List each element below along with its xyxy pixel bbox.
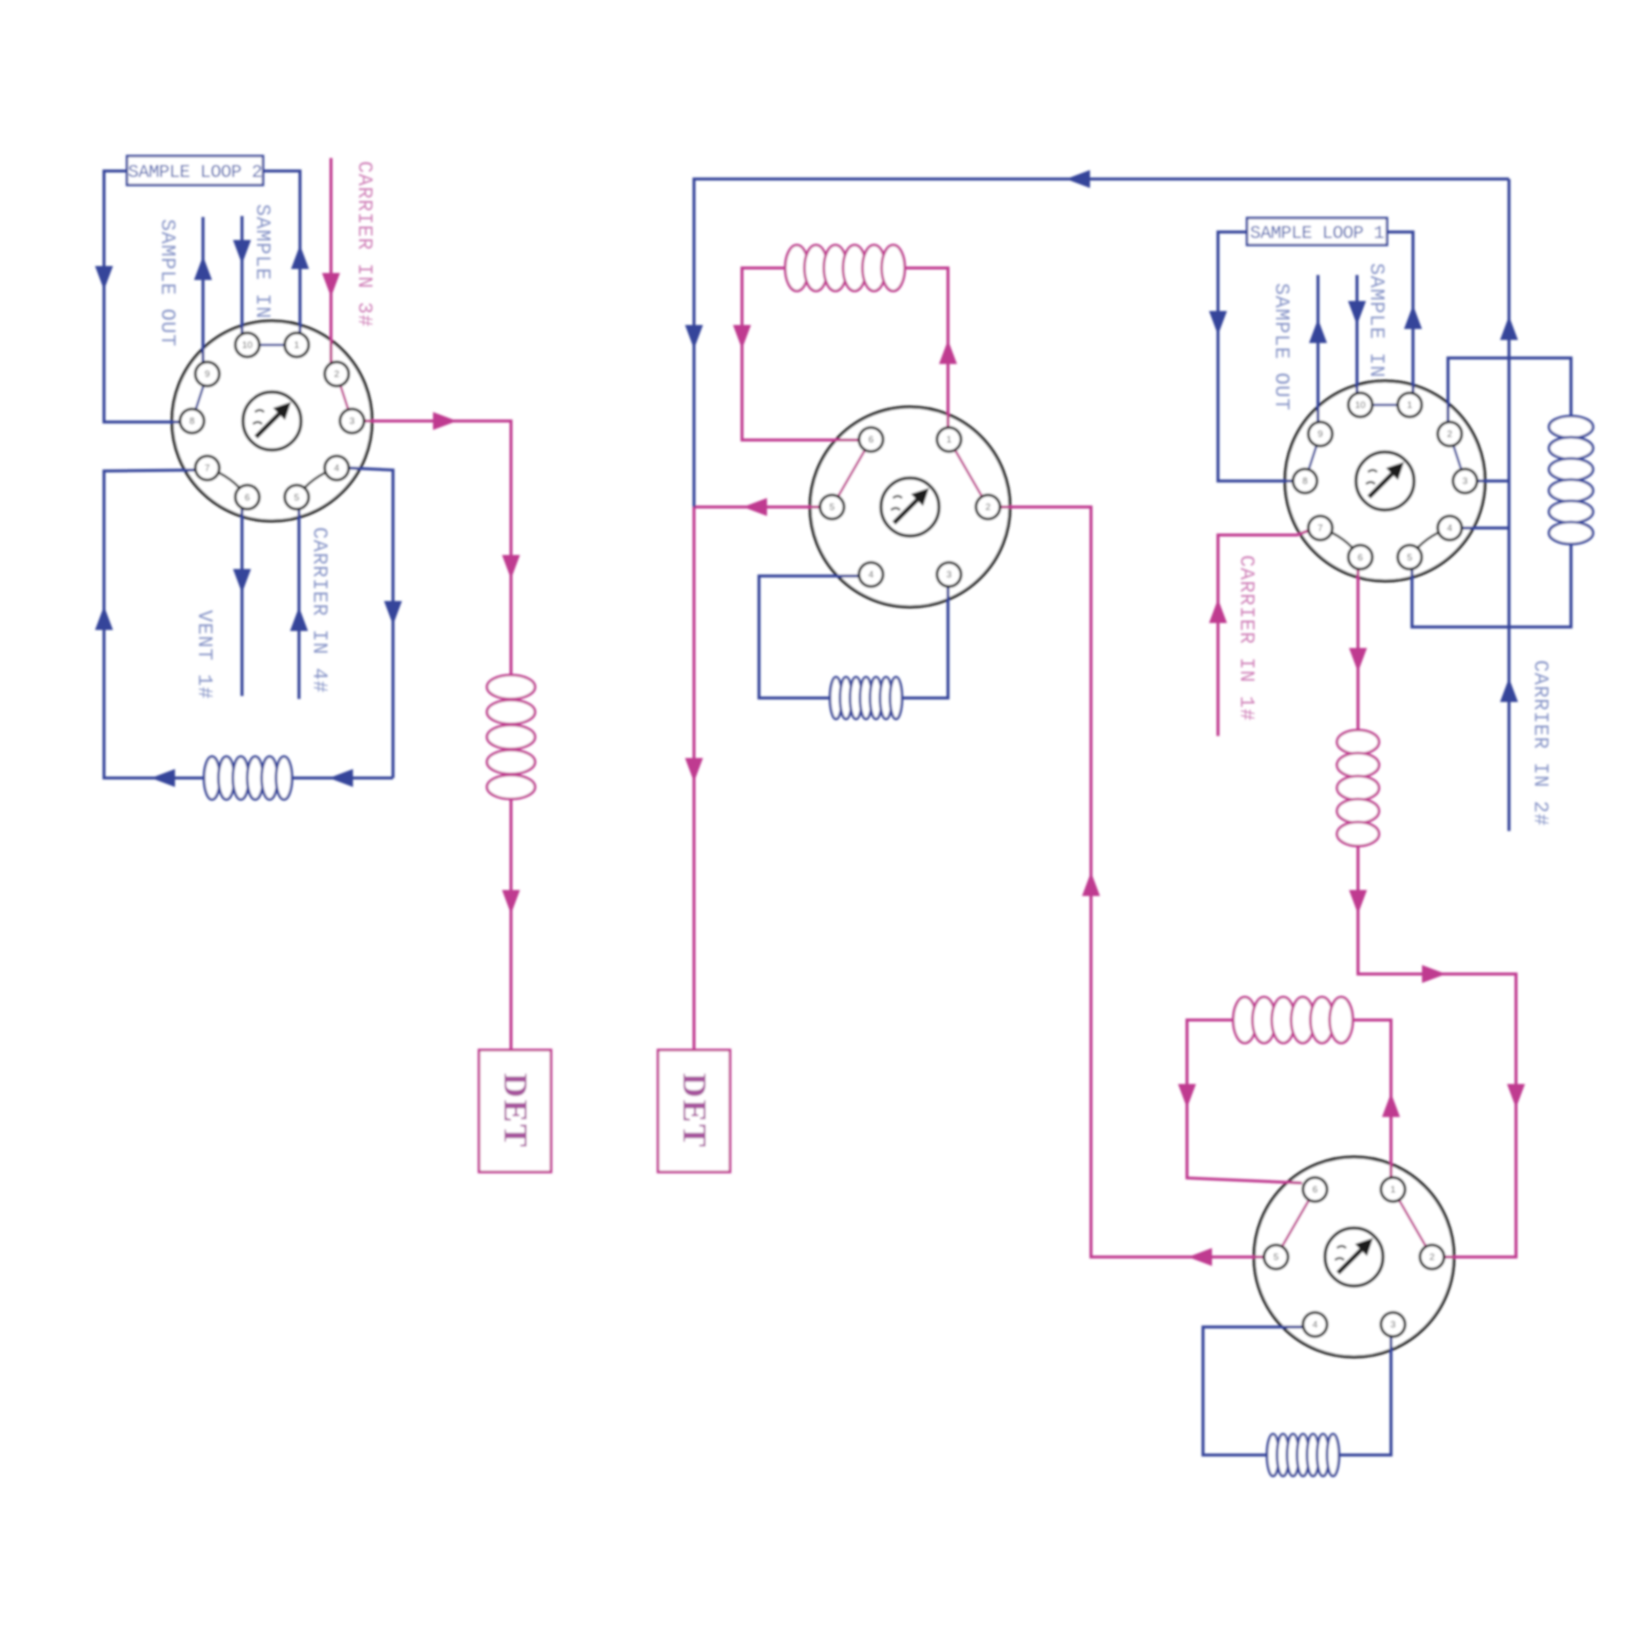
valve V2 (10-port) body: [172, 321, 372, 521]
svg-text:5: 5: [1273, 1252, 1278, 1263]
coil column C1 (vertical pink): [487, 675, 535, 799]
V3 port 3: [1453, 469, 1477, 493]
V2 port 8: [180, 409, 204, 433]
SAMPLE LOOP 2 box: [127, 156, 263, 185]
svg-text:SAMPLE OUT: SAMPLE OUT: [155, 219, 178, 347]
wire V4 port5 to V1 port2: [1000, 507, 1264, 1257]
V3 port 2: [1438, 422, 1462, 446]
wire CARRIER IN 4# to V2 port5: [298, 509, 301, 699]
svg-text:2: 2: [334, 369, 339, 380]
wire V3 port3 out: [1477, 480, 1509, 483]
arrow loop1 up: [1404, 305, 1422, 329]
V3 rotor channel 10-1: [1360, 404, 1409, 406]
svg-text:SAMPLE IN: SAMPLE IN: [250, 204, 273, 319]
V2 port 3: [340, 409, 364, 433]
arrow bottom loop left 1: [329, 769, 353, 787]
arrow bottom loop up: [95, 606, 113, 630]
svg-text:7: 7: [1318, 523, 1323, 534]
valve V4 (6-port) body: [1254, 1157, 1454, 1357]
arrow v3 out right: [1422, 965, 1446, 983]
svg-text:CARRIER IN 3#: CARRIER IN 3#: [352, 161, 375, 327]
V3 rotor channel 2-3: [1450, 434, 1465, 481]
arrow bottom loop down: [384, 601, 402, 625]
wire V4 coil loop ports1-6: [1187, 1020, 1391, 1183]
svg-text:6: 6: [245, 492, 250, 503]
V2 port 9: [195, 362, 219, 386]
arrow carrier2 up: [1500, 678, 1518, 702]
DET box 2: [658, 1050, 730, 1172]
V4 port 2: [1420, 1245, 1444, 1269]
coil column C5 (pink): [1233, 997, 1353, 1043]
wire SAMPLE IN to V3 port10: [1356, 275, 1359, 394]
V1 port 1: [937, 428, 961, 452]
svg-text:SAMPLE OUT: SAMPLE OUT: [1269, 283, 1292, 411]
coil reference L2 (blue): [830, 677, 902, 719]
V1 port 3: [937, 563, 961, 587]
svg-text:6: 6: [1358, 552, 1363, 563]
wire loop2 left side to port8: [104, 171, 181, 422]
V2 port 5: [285, 485, 309, 509]
svg-text:2: 2: [1447, 429, 1452, 440]
V3 rotor channel 8-9: [1305, 434, 1320, 481]
svg-text:DET: DET: [676, 1073, 713, 1149]
svg-text:8: 8: [189, 416, 194, 427]
V4 port 6: [1303, 1178, 1327, 1202]
V3 port 10: [1348, 393, 1372, 417]
wire loop1 right side to V3 port1: [1387, 232, 1413, 394]
coil column C3 (blue vertical): [1549, 416, 1593, 544]
wire coil to V4 port2: [1358, 845, 1516, 1257]
svg-text:SAMPLE LOOP 2: SAMPLE LOOP 2: [128, 163, 262, 183]
arrow V4-V1 up: [1082, 872, 1100, 896]
V2 rotor channel 10-1: [247, 344, 296, 346]
V3 port 8: [1293, 469, 1317, 493]
V2 port 10: [235, 333, 259, 357]
svg-text:9: 9: [205, 369, 210, 380]
wire loop2 right side: [263, 171, 300, 334]
wire SAMPLE IN to V2 port10: [241, 216, 244, 334]
V1 port 5: [820, 495, 844, 519]
svg-text:SAMPLE IN: SAMPLE IN: [1364, 263, 1387, 378]
V2 rotor channel 8-9: [192, 374, 207, 421]
svg-text:9: 9: [1318, 429, 1323, 440]
arrow to DET1 down 1: [502, 555, 520, 579]
arrow v3 out down 2: [1349, 890, 1367, 914]
arrow carrier4 up: [290, 607, 308, 631]
V2 rotor channel 2-3: [337, 374, 352, 421]
arrow DET2 down: [685, 758, 703, 782]
svg-text:10: 10: [242, 340, 253, 351]
wire V2 port4 to bottom loop right: [349, 468, 393, 778]
arrow loop2 down: [95, 266, 113, 290]
arrow V1 loop up: [939, 340, 957, 364]
V4 rotor channel 6-5: [1276, 1190, 1315, 1258]
V3 port 4: [1438, 516, 1462, 540]
V4 port 5: [1264, 1245, 1288, 1269]
V1 rotor channel 1-2: [949, 440, 988, 508]
coil column C4 (pink vertical): [1337, 730, 1379, 846]
svg-text:4: 4: [1447, 523, 1452, 534]
arrow carrier1 up: [1209, 599, 1227, 623]
arrow V4 loop down: [1178, 1084, 1196, 1108]
coil reference L3 (blue): [1267, 1434, 1339, 1476]
svg-text:5: 5: [1407, 552, 1412, 563]
wire CARRIER IN 3# to V2 port2: [330, 158, 333, 364]
V4 rotor channel 1-2: [1393, 1190, 1432, 1258]
arrow vent down: [233, 569, 251, 593]
svg-text:DET: DET: [497, 1073, 534, 1149]
V2 port 2: [325, 362, 349, 386]
svg-text:4: 4: [868, 570, 873, 581]
wire V3 port6 down: [1357, 569, 1360, 731]
SAMPLE LOOP 1 box: [1247, 218, 1387, 245]
V4 port 1: [1381, 1178, 1405, 1202]
wire SAMPLE OUT from V3 port9: [1317, 275, 1320, 423]
V3 port 7: [1308, 516, 1332, 540]
arrow V4 loop up: [1382, 1093, 1400, 1117]
arrow bottom loop left 2: [151, 769, 175, 787]
svg-text:10: 10: [1355, 400, 1366, 411]
wire V1 coil loop ports1-6: [742, 268, 948, 440]
V3 rotor handle: [1356, 452, 1414, 510]
V2 port 6: [235, 485, 259, 509]
svg-text:CARRIER IN 2#: CARRIER IN 2#: [1528, 660, 1551, 826]
wire CARRIER IN 1# to V3 port7: [1218, 530, 1310, 736]
wire V3 port2 to big coil top: [1448, 358, 1571, 422]
svg-text:1: 1: [1407, 400, 1412, 411]
arrow loop1 down: [1209, 311, 1227, 335]
wire big coil bottom to V3 port5: [1412, 540, 1571, 627]
svg-text:6: 6: [1312, 1185, 1317, 1196]
arrow right vertical up: [1500, 316, 1518, 340]
V4 port 3: [1381, 1313, 1405, 1337]
svg-text:CARRIER IN 1#: CARRIER IN 1#: [1234, 555, 1257, 721]
svg-text:7: 7: [205, 463, 210, 474]
arrow v3 sample-in down: [1348, 301, 1366, 325]
V1 rotor channel 6-5: [832, 440, 871, 508]
V1 port 2: [976, 495, 1000, 519]
svg-text:3: 3: [946, 570, 951, 581]
V4 rotor handle: [1325, 1228, 1383, 1286]
V1 rotor handle: [881, 478, 939, 536]
V1 port 6: [859, 428, 883, 452]
svg-text:SAMPLE LOOP 1: SAMPLE LOOP 1: [1250, 224, 1384, 244]
arrow v3 sample-out up: [1309, 319, 1327, 343]
V3 rotor channel 7-6: [1320, 528, 1360, 557]
V2 rotor channel 5-4: [297, 468, 337, 497]
wire V1 port5 out to DET2: [694, 506, 820, 509]
valve V3 (10-port) body: [1285, 381, 1485, 581]
arrow V1 out left: [743, 498, 767, 516]
V4 port 4: [1303, 1313, 1327, 1337]
V2 rotor handle: [243, 392, 301, 450]
V3 rotor channel 5-4: [1410, 528, 1450, 557]
svg-text:CARRIER IN 4#: CARRIER IN 4#: [307, 527, 330, 693]
coil column C2 (pink): [785, 245, 905, 291]
V3 port 5: [1398, 545, 1422, 569]
wire V4 bottom loop ports4-3: [1203, 1327, 1391, 1455]
arrow carrier3 down: [322, 273, 340, 297]
wire bottom loop to V2 port7: [104, 470, 393, 778]
DET box 1: [479, 1050, 551, 1172]
arrow v3 out down 1: [1349, 648, 1367, 672]
svg-text:1: 1: [294, 340, 299, 351]
V2 port 7: [195, 456, 219, 480]
svg-text:5: 5: [294, 492, 299, 503]
arrow to DET1 right: [433, 412, 457, 430]
wire SAMPLE OUT from V2 port9: [202, 217, 205, 364]
wire V1 bottom loop ports4-3: [759, 576, 948, 698]
svg-text:8: 8: [1302, 476, 1307, 487]
wire VENT 1# from V2 port6: [241, 509, 244, 696]
wire loop1 left side to V3 port8: [1218, 232, 1294, 481]
svg-text:5: 5: [829, 502, 834, 513]
svg-text:3: 3: [1390, 1320, 1395, 1331]
V2 port 1: [285, 333, 309, 357]
svg-text:2: 2: [1429, 1252, 1434, 1263]
wire V3 port4 out: [1462, 527, 1509, 530]
V2 port 4: [325, 456, 349, 480]
svg-text:3: 3: [1462, 476, 1467, 487]
wire top return line from V3 to V1 junction: [694, 179, 1509, 507]
svg-text:3: 3: [349, 416, 354, 427]
arrow top line left: [1066, 170, 1090, 188]
svg-text:4: 4: [334, 463, 339, 474]
arrow to DET1 down 2: [502, 890, 520, 914]
svg-text:4: 4: [1312, 1320, 1317, 1331]
arrow V4 out left: [1188, 1248, 1212, 1266]
arrow top line down: [685, 325, 703, 349]
arrow V1 loop down: [733, 325, 751, 349]
V3 port 9: [1308, 422, 1332, 446]
svg-text:VENT 1#: VENT 1#: [192, 610, 215, 700]
svg-text:6: 6: [868, 435, 873, 446]
V3 port 6: [1348, 545, 1372, 569]
coil reference L1 (blue): [204, 757, 292, 800]
wire column coil to DET1: [510, 799, 513, 1050]
arrow sample-in down: [233, 240, 251, 264]
wire down to DET2: [693, 507, 696, 1050]
arrow sample-out up: [194, 256, 212, 280]
V2 rotor channel 7-6: [207, 468, 247, 497]
V1 port 4: [859, 563, 883, 587]
wire V2 port3 to column coil: [364, 421, 511, 676]
valve V1 (6-port) body: [810, 407, 1010, 607]
svg-text:1: 1: [1390, 1185, 1395, 1196]
svg-text:2: 2: [985, 502, 990, 513]
arrow loop2 up into box: [291, 245, 309, 269]
arrow into V4 down: [1507, 1084, 1525, 1108]
svg-text:1: 1: [946, 435, 951, 446]
V3 port 1: [1398, 393, 1422, 417]
wire right vertical / CARRIER IN 2#: [1508, 179, 1511, 831]
